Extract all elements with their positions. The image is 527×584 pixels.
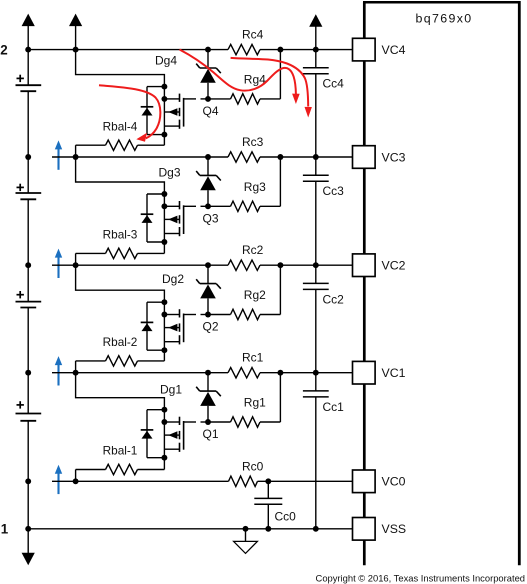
svg-text:1: 1 <box>1 521 9 536</box>
svg-text:Dg2: Dg2 <box>162 272 184 286</box>
node drain Q1 <box>161 407 167 413</box>
svg-text:Q4: Q4 <box>203 104 219 118</box>
resistor Rg2 <box>208 314 231 316</box>
svg-text:VC1: VC1 <box>382 366 406 380</box>
body diode Q4 <box>147 86 164 88</box>
wire: source/drain vertical Q3 <box>163 194 165 253</box>
pin VC4 <box>353 38 376 61</box>
capacitor Cc4 <box>315 50 317 68</box>
wire: VC3 rail <box>52 156 228 158</box>
resistor Rbal-2 <box>75 361 77 373</box>
blue current arrow <box>57 149 59 170</box>
wire: gate line Q1 <box>184 421 196 423</box>
svg-text:Rg3: Rg3 <box>244 180 266 194</box>
resistor Rbal-3 <box>75 253 77 265</box>
svg-text:Rbal-2: Rbal-2 <box>103 335 138 349</box>
IC bq769x0 outline <box>363 1 519 4</box>
wire: Rg4 riser <box>279 50 281 99</box>
transistor Q1 <box>164 421 179 423</box>
svg-text:Rbal-1: Rbal-1 <box>103 444 138 458</box>
zener diode Dg2 <box>207 265 209 283</box>
svg-text:Dg1: Dg1 <box>160 382 182 396</box>
battery cell 2 <box>17 294 24 296</box>
wire: drain branch cell 3 <box>76 157 165 194</box>
junction dots on left rail <box>25 47 31 53</box>
wire: drain branch cell 2 <box>76 265 165 302</box>
wire: VC1 rail <box>52 372 228 374</box>
node drain Q4 <box>161 84 167 90</box>
node drain Q3 <box>161 191 167 197</box>
battery cell 4 <box>17 77 24 79</box>
svg-text:Q3: Q3 <box>203 211 219 225</box>
resistor Rbal-4 <box>75 145 77 157</box>
wire: sense column top arrow <box>309 14 322 27</box>
pin VC0 <box>353 470 376 493</box>
node gate Q2 / Dg2 anode <box>205 312 211 318</box>
pin VC3 <box>353 146 376 169</box>
wire: VC2 rail right <box>260 264 353 266</box>
node gate Q4 / Dg4 anode <box>205 96 211 102</box>
wire: rail cell4- to cell3+ <box>27 91 29 193</box>
wire: VC1 rail right <box>260 372 353 374</box>
pin VC1 <box>353 361 376 384</box>
svg-text:Cc2: Cc2 <box>323 292 345 306</box>
blue current arrow <box>57 473 59 494</box>
capacitor Cc0 <box>267 481 269 498</box>
wire: VC2 rail <box>52 264 228 266</box>
junction dots on VC3 rail <box>73 154 79 160</box>
resistor Rc1 <box>228 368 260 378</box>
resistor Rbal-1 <box>75 470 77 482</box>
battery cell 1 <box>17 404 24 406</box>
wire: source/drain vertical Q1 <box>163 410 165 470</box>
svg-text:VC4: VC4 <box>382 43 406 57</box>
resistor Rc0 <box>229 476 258 486</box>
junction dots on VC2 rail <box>73 262 79 268</box>
capacitor Cc1 <box>315 373 317 391</box>
blue current arrow <box>57 365 59 386</box>
svg-text:Cc3: Cc3 <box>323 184 345 198</box>
resistor Rc3 <box>228 152 260 162</box>
wire: VC4 rail right <box>260 49 353 51</box>
resistor Rg1 <box>208 421 231 423</box>
wire: drain branch cell 4 <box>76 50 165 87</box>
battery cell 3 <box>17 186 24 188</box>
zener diode Dg4 <box>207 50 209 68</box>
node gate Q1 / Dg1 anode <box>205 419 211 425</box>
svg-text:Rbal-4: Rbal-4 <box>103 119 138 133</box>
junction dots on VC4 rail <box>73 47 79 53</box>
body diode Q1 <box>147 409 164 411</box>
body diode Q2 <box>147 301 164 303</box>
wire: VC3 rail right <box>260 156 353 158</box>
capacitor Cc2 <box>315 265 317 283</box>
svg-text:Rc2: Rc2 <box>242 243 264 257</box>
svg-text:Cc1: Cc1 <box>323 400 345 414</box>
pin VSS <box>353 518 376 541</box>
zener diode Dg1 <box>207 373 209 391</box>
wire: pack+ arrow above Q4 branch <box>69 14 82 27</box>
blue current arrow <box>57 257 59 278</box>
wire: VSS rail <box>28 528 352 530</box>
junction dots on VSS rail <box>243 526 249 532</box>
transistor Q4 <box>164 98 179 100</box>
wire: Rg2 riser <box>279 265 281 314</box>
red current curve under Rc4 (tail 2) <box>231 58 309 107</box>
svg-text:Rg1: Rg1 <box>244 396 266 410</box>
capacitor Cc3 <box>315 157 317 175</box>
wire: source/drain vertical Q2 <box>163 302 165 361</box>
svg-text:Cc0: Cc0 <box>275 509 297 523</box>
body diode Q3 <box>147 193 164 195</box>
junction dots on VC0 row <box>73 478 79 484</box>
svg-text:Rg2: Rg2 <box>244 288 266 302</box>
wire: rail cell2- to cell1+ <box>27 308 29 414</box>
svg-text:Rc4: Rc4 <box>242 28 264 42</box>
bottom arrow <box>22 553 35 565</box>
wire: VC4 rail <box>28 49 228 51</box>
transistor Q2 <box>164 314 179 316</box>
red balancing current curve (hook into Rbal-4) <box>99 85 160 138</box>
transistor Q3 <box>164 205 179 207</box>
wire: Rg1 riser <box>279 373 281 422</box>
wire: drain branch cell 1 <box>76 373 165 410</box>
wire: rail cell1- to bottom arrow <box>27 421 29 555</box>
red bypass current curve from Dg4 through Rg4 to VC4 (tail 1) <box>180 50 296 95</box>
resistor Rg3 <box>208 205 231 207</box>
wire: Rg3 riser <box>279 157 281 206</box>
pin VC2 <box>353 254 376 277</box>
svg-text:Rc1: Rc1 <box>242 351 264 365</box>
resistor Rg4 <box>208 98 231 100</box>
svg-text:bq769x0: bq769x0 <box>416 11 473 25</box>
svg-text:VC3: VC3 <box>382 150 406 164</box>
wire: VC0 row <box>52 480 229 482</box>
wire: left rail top arrow <box>22 14 35 27</box>
node gate Q3 / Dg3 anode <box>205 203 211 209</box>
svg-text:Cc4: Cc4 <box>323 77 345 91</box>
resistor Rc4 <box>228 44 260 54</box>
svg-text:Rc3: Rc3 <box>242 135 264 149</box>
node drain Q2 <box>161 299 167 305</box>
wire: gate line Q4 <box>184 98 196 100</box>
svg-text:Rc0: Rc0 <box>242 459 264 473</box>
wire: rail cell3- to cell2+ <box>27 199 29 301</box>
wire: VC0 row right <box>258 480 353 482</box>
svg-text:2: 2 <box>0 42 7 57</box>
svg-text:VC0: VC0 <box>382 475 406 489</box>
wire: source/drain vertical Q4 <box>163 87 165 146</box>
svg-text:VC2: VC2 <box>382 259 406 273</box>
svg-text:Rbal-3: Rbal-3 <box>103 228 138 242</box>
junction dots on VC1 rail <box>73 370 79 376</box>
wire: gate line Q3 <box>184 205 196 207</box>
svg-text:Copyright © 2016, Texas Instru: Copyright © 2016, Texas Instruments Inco… <box>316 572 525 583</box>
svg-text:Q2: Q2 <box>203 320 219 334</box>
svg-text:Dg3: Dg3 <box>159 166 181 180</box>
resistor Rc2 <box>228 260 260 270</box>
zener diode Dg3 <box>207 157 209 175</box>
wire: gate line Q2 <box>184 314 196 316</box>
svg-text:VSS: VSS <box>382 522 407 536</box>
ground <box>245 529 247 542</box>
svg-text:Dg4: Dg4 <box>155 53 177 67</box>
svg-text:Q1: Q1 <box>203 427 219 441</box>
